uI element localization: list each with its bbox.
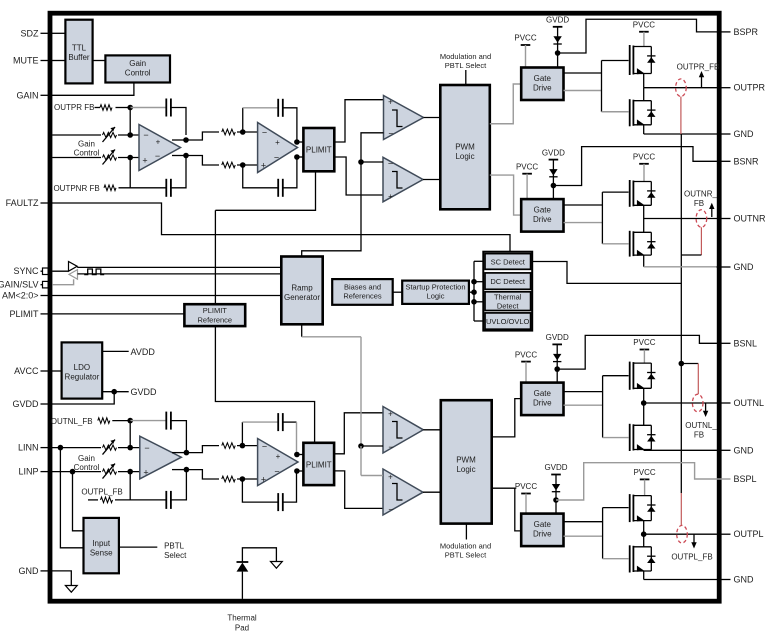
svg-text:BSPL: BSPL [734, 474, 757, 484]
svg-text:BSNL: BSNL [734, 338, 758, 348]
svg-text:GAIN/SLV: GAIN/SLV [0, 280, 39, 290]
wire fb cap top ch1 [130, 107, 166, 109]
svg-text:Startup Protection: Startup Protection [405, 282, 465, 291]
wire bootstrap 3 to BS pin [557, 335, 716, 369]
right feedback rail [680, 134, 682, 493]
feedback ellipse OUTPR [676, 79, 687, 97]
wire Gate Drive 4 outputs [564, 521, 603, 523]
wire PWM2 out top to Gate Drive 3 [492, 399, 522, 437]
svg-text:GND: GND [734, 262, 755, 272]
transistor Q4H (high side) [629, 494, 631, 522]
pin LINN wire + variable resistor [52, 447, 101, 449]
block U_SC SC Detect [485, 254, 531, 270]
svg-text:OUTPR_FB: OUTPR_FB [677, 63, 720, 72]
pin MUTE (left) [41, 60, 53, 62]
svg-text:Detect: Detect [497, 302, 520, 311]
svg-text:+: + [261, 160, 266, 170]
wire PWM1 out top to Gate Drive 1 (grey) [490, 84, 521, 124]
label/arrow OUTNR_FB [711, 206, 713, 217]
pin FAULTZ (left) [41, 202, 53, 204]
svg-text:GND: GND [19, 566, 40, 576]
wire LINN to Input Sense [60, 448, 83, 548]
wire Startup to detect bracket [469, 291, 474, 293]
svg-text:Thermal: Thermal [494, 293, 522, 302]
transistor Q3L (low side) [629, 424, 631, 451]
svg-text:Control: Control [74, 148, 100, 157]
red sense wire OUTNR [700, 227, 702, 255]
wire GND pin + ground symbol [52, 571, 71, 586]
block U_PREF PLIMIT Reference [184, 304, 245, 326]
wire PWM2 out bottom to Gate Drive 4 [492, 488, 522, 531]
red sense wire OUTPR [680, 97, 682, 135]
transistor Q2H (high side) [629, 180, 631, 207]
wire CMP4 out to PWM2 [423, 491, 441, 493]
svg-text:+: + [275, 138, 280, 147]
svg-text:Drive: Drive [533, 215, 552, 224]
svg-text:FB: FB [694, 431, 704, 440]
wire/label GVDD output [102, 391, 129, 393]
transistor Q1L (low side) [629, 99, 631, 126]
svg-text:PVCC: PVCC [514, 34, 536, 43]
wire PLIMIT1 bottom port down-left to PLIMIT Reference rail [215, 171, 315, 210]
svg-text:Logic: Logic [456, 465, 475, 474]
capacitor C_fb1a [165, 99, 167, 117]
wire OUT 2 to pin [644, 218, 717, 220]
svg-text:−: − [144, 443, 149, 453]
svg-text:Control: Control [74, 463, 100, 472]
svg-text:PVCC: PVCC [516, 162, 538, 171]
svg-text:−: − [274, 152, 279, 162]
wire/label PBTL Select [119, 546, 157, 548]
svg-text:−: − [143, 130, 148, 140]
wire ramp to comparators ch1 [302, 133, 384, 257]
wire CMP2 out to PWM logic [423, 179, 440, 181]
svg-text:Gate: Gate [534, 74, 552, 83]
svg-text:OUTPL: OUTPL [734, 529, 764, 539]
pin OUTPR (right, y=87.7) [717, 87, 731, 89]
svg-text:Gain: Gain [78, 139, 95, 148]
wire GAIN pin to Gain Control [52, 83, 134, 96]
svg-text:GVDD: GVDD [12, 399, 39, 409]
wire 4 high source to OUT [643, 521, 645, 535]
svg-text:GVDD: GVDD [546, 16, 569, 25]
svg-text:OUTPL_FB: OUTPL_FB [81, 488, 122, 497]
feedback cap ch2 2nd stage bottom [242, 479, 278, 502]
detect bracket rail [473, 261, 475, 321]
wire bootstrap 1 to BS pin [558, 19, 717, 53]
pin BSPR (right, y=31.9) [717, 31, 731, 33]
svg-text:GVDD: GVDD [542, 148, 565, 157]
feedback ellipse OUTNR [696, 210, 707, 228]
wire 1 low source to GND [643, 125, 645, 134]
svg-text:+: + [388, 97, 393, 106]
thermal pad diode + ground [241, 572, 243, 599]
op-amp U1A (right ch first stage) [139, 125, 181, 171]
op-amp U1A outputs [183, 137, 189, 143]
wire Gate Drive 2 outputs [564, 204, 603, 206]
wire AVCC to LDO [52, 370, 61, 372]
svg-text:PWM: PWM [455, 143, 475, 152]
block U_UV UVLO/OVLO [485, 313, 531, 329]
wire 2 low source to GND [643, 255, 645, 267]
svg-text:DC Detect: DC Detect [490, 277, 526, 286]
feedback cap ch1 2nd stage top [242, 108, 244, 132]
svg-text:TTL: TTL [72, 44, 87, 53]
svg-text:+: + [388, 472, 393, 481]
block U_TTL TTL Buffer [65, 20, 92, 84]
pin SYNC (left) [41, 270, 43, 272]
wire OUT 1 to pin [644, 87, 717, 89]
block U_GD4 Gate Drive [521, 514, 563, 547]
pin LINN (left) [41, 447, 53, 449]
wire GVDD dot to GVDD pin [52, 392, 114, 404]
svg-text:OUTNR_: OUTNR_ [684, 190, 717, 199]
svg-text:PBTL Select: PBTL Select [445, 61, 487, 70]
svg-text:GND: GND [734, 445, 755, 455]
comparator CMP1 (top) [384, 96, 424, 140]
wire 1 high source to OUT [643, 74, 645, 88]
wire 1 low drain to OUT [643, 88, 645, 101]
pin BSPL (right, y=479.0) [717, 478, 731, 480]
pin GND (right, y=267.0) [717, 266, 731, 268]
wire ramp to comparators ch2 (grey) [301, 324, 303, 337]
buffer SYNC input [52, 270, 68, 272]
wire 4 low source to GND [643, 571, 645, 580]
wire 3 high source to OUT [643, 388, 645, 403]
comparator CMP3 (top) [383, 407, 423, 454]
wire Gate Drive 1 outputs [564, 72, 602, 74]
svg-text:Drive: Drive [533, 399, 552, 408]
wire PLIMIT pin to PLIMIT Reference [52, 313, 184, 315]
svg-text:OUTNL_: OUTNL_ [685, 421, 717, 430]
comparator CMP2 (bottom) [383, 157, 423, 202]
body diode Q4L [650, 547, 652, 571]
svg-text:−: − [388, 129, 393, 139]
transistor Q1H (high side) [629, 45, 631, 75]
pin PLIMIT (left) [41, 313, 53, 315]
pin GND (left) [41, 570, 53, 572]
wire MUTE to TTL Buffer [52, 60, 65, 62]
comparator CMP4 (bottom) [383, 469, 423, 515]
wire/label AVDD [102, 350, 129, 352]
svg-text:Gain: Gain [78, 454, 95, 463]
wire OUT 3 to pin [644, 402, 717, 404]
wire PLIMIT1 out top to comparator [334, 100, 383, 142]
svg-text:OUTNL_FB: OUTNL_FB [51, 417, 93, 426]
pin OUTPL (right, y=534.2) [717, 533, 731, 535]
svg-text:Input: Input [92, 539, 111, 548]
transistor Q3H (high side) [629, 362, 631, 390]
pin LINP wire + variable resistor [52, 471, 101, 473]
block U_IS Input Sense [84, 518, 119, 573]
feedback cap ch2 2nd stage top [241, 422, 243, 446]
svg-text:GVDD: GVDD [131, 387, 158, 397]
capacitor C_fb2a [165, 412, 167, 430]
svg-text:SYNC: SYNC [13, 266, 39, 276]
block U_GD1 Gate Drive [521, 68, 563, 101]
svg-text:PWM: PWM [456, 456, 476, 465]
block U_GC Gain Control [105, 55, 170, 82]
svg-text:−: − [388, 442, 393, 452]
svg-text:Gain: Gain [129, 59, 146, 68]
pin GAIN (left) [41, 94, 53, 96]
svg-text:−: − [388, 504, 393, 514]
svg-text:Gate: Gate [534, 520, 552, 529]
svg-text:−: − [388, 158, 393, 168]
wire GAIN/SLV line to Ramp Generator [78, 273, 282, 275]
svg-text:Sense: Sense [90, 549, 113, 558]
body diode Q1L [650, 101, 652, 125]
svg-text:+: + [388, 192, 393, 201]
svg-text:FB: FB [694, 199, 704, 208]
label/arrow OUTPL_FB [693, 534, 695, 545]
feedback cap ch1 2nd stage bottom [243, 165, 278, 188]
label/arrow OUTPR_FB [701, 75, 703, 88]
svg-text:PLIMIT: PLIMIT [306, 460, 332, 469]
block U_BIAS Biases and References [332, 279, 393, 305]
svg-text:GVDD: GVDD [546, 333, 569, 342]
block stack detect outer [483, 252, 532, 331]
label Modulation and PBTL Select (bottom) [465, 524, 467, 540]
op-amp U2B (left ch second stage) [258, 439, 298, 486]
svg-text:Regulator: Regulator [65, 372, 100, 381]
svg-text:+: + [388, 409, 393, 418]
svg-text:−: − [262, 127, 267, 137]
pin GND (right, y=450.3) [717, 449, 731, 451]
svg-text:Control: Control [125, 69, 151, 78]
block U_PL1 PLIMIT (right channel) [297, 141, 304, 143]
svg-text:−: − [262, 441, 267, 451]
svg-text:BSNR: BSNR [734, 156, 760, 166]
svg-text:AM<2:0>: AM<2:0> [2, 291, 39, 301]
svg-text:PVCC: PVCC [633, 20, 655, 29]
svg-text:OUTPNR FB: OUTPNR FB [53, 184, 99, 193]
block U_RAMP Ramp Generator [281, 257, 322, 325]
feedback ellipse OUTNL [692, 394, 703, 412]
op-amp U1B (right ch second stage) [258, 123, 298, 173]
diode D_1 GVDD [553, 36, 561, 43]
pin GVDD (left) [41, 403, 53, 405]
diode D_4 GVDD [552, 484, 560, 491]
block U_LDO LDO Regulator [62, 342, 103, 398]
pin SDZ (left) [41, 32, 53, 34]
transistor Q4L (low side) [629, 545, 631, 572]
pin BSNL (right, y=343.3) [717, 342, 731, 344]
svg-text:PLIMIT: PLIMIT [9, 309, 39, 319]
pin AM&lt;2:0&gt; (left) [41, 295, 53, 297]
svg-text:+: + [142, 156, 147, 166]
wire SYNC line to Ramp Generator [77, 266, 281, 268]
capacitor C_fb1b [165, 179, 167, 197]
label/arrow OUTNL_FB [705, 403, 707, 414]
wire FAULTZ to SC Detect top [52, 203, 510, 252]
wire SC Detect output to right rail [532, 262, 681, 284]
wire Biases to Startup [393, 291, 403, 293]
svg-text:PVCC: PVCC [633, 153, 655, 162]
body diode Q3H [650, 363, 652, 388]
svg-text:−: − [274, 466, 279, 476]
wire 3 low drain to OUT [643, 403, 645, 425]
svg-text:OUTPR FB: OUTPR FB [54, 103, 94, 112]
wire LINP to Input Sense [73, 472, 84, 531]
svg-text:Logic: Logic [455, 152, 474, 161]
svg-text:Gate: Gate [534, 389, 552, 398]
block U_PWM2 PWM Logic 2 [441, 400, 492, 523]
svg-text:+: + [143, 468, 148, 478]
svg-text:Buffer: Buffer [68, 53, 90, 62]
svg-text:GAIN: GAIN [16, 90, 38, 100]
pin BSNR (right, y=161.3) [717, 160, 731, 162]
body diode Q2L [650, 232, 652, 255]
pin LINP (left) [41, 471, 53, 473]
svg-text:Reference: Reference [197, 316, 232, 325]
svg-text:+: + [261, 474, 266, 484]
pulse waveform symbol [84, 269, 104, 275]
wire PLIMIT1 out bottom to comparator [334, 157, 383, 195]
feedback ellipse OUTPL [677, 525, 688, 543]
wire 2 high source to OUT [643, 205, 645, 218]
capacitor C_fb2b [165, 491, 167, 509]
svg-text:Modulation and: Modulation and [440, 542, 491, 551]
wire AM<2:0> to Ramp Generator [52, 295, 281, 297]
svg-text:Logic: Logic [427, 291, 445, 300]
body diode Q4H [650, 496, 652, 521]
svg-text:FAULTZ: FAULTZ [6, 198, 39, 208]
svg-text:OUTPR: OUTPR [734, 83, 765, 93]
pin RINN wire + variable resistor [52, 157, 101, 159]
red sense wire OUTPL [680, 493, 682, 525]
svg-text:SDZ: SDZ [21, 28, 40, 38]
svg-text:PVCC: PVCC [515, 350, 537, 359]
op-amp U2A (left ch first stage) [140, 436, 182, 479]
svg-text:References: References [343, 291, 382, 300]
svg-text:Ramp: Ramp [291, 283, 313, 292]
wire PLIMIT2 out bottom to comparator [334, 471, 383, 509]
wire PWM1 out bottom to Gate Drive 2 (grey) [490, 175, 521, 215]
wire CMP1 out to PWM logic [424, 117, 441, 119]
svg-text:−: − [155, 151, 160, 161]
wire GAIN/SLV grey [52, 279, 73, 285]
wire CMP3 out to PWM2 [423, 429, 441, 431]
wire interstage ch1 top + resistor [186, 132, 219, 140]
diode D_3 GVDD [553, 354, 561, 361]
svg-text:Gate: Gate [534, 206, 552, 215]
svg-text:LINN: LINN [18, 443, 39, 453]
pin GND (right, y=579.5) [717, 579, 731, 581]
svg-text:Generator: Generator [284, 293, 320, 302]
svg-text:OUTPL_FB: OUTPL_FB [671, 553, 712, 562]
svg-text:Pad: Pad [235, 624, 249, 633]
wire Gate Drive 3 outputs [564, 391, 603, 393]
svg-text:OUTNR: OUTNR [734, 214, 765, 224]
svg-text:PBTL Select: PBTL Select [445, 551, 487, 560]
pin GND (right, y=134.0) [717, 133, 731, 135]
svg-text:Drive: Drive [533, 84, 552, 93]
svg-text:OUTNL: OUTNL [734, 398, 765, 408]
svg-text:LDO: LDO [74, 363, 90, 372]
svg-text:BSPR: BSPR [734, 27, 759, 37]
svg-text:Thermal: Thermal [227, 614, 257, 623]
diode D_2 GVDD [549, 169, 557, 176]
wire interstage ch2 bottom + resistor [186, 470, 219, 479]
svg-text:AVCC: AVCC [14, 366, 39, 376]
block U_TH Thermal Detect [485, 292, 531, 311]
vertical rail through PLIMIT Reference [214, 210, 216, 304]
svg-text:PLIMIT: PLIMIT [203, 306, 228, 315]
pin OUTNR (right, y=218.5) [717, 218, 731, 220]
svg-text:Modulation and: Modulation and [440, 52, 491, 61]
svg-text:+: + [156, 137, 161, 146]
svg-text:UVLO/OVLO: UVLO/OVLO [486, 317, 530, 326]
svg-text:PVCC: PVCC [633, 468, 655, 477]
svg-text:Drive: Drive [533, 530, 552, 539]
pin GAIN/SLV (left) [41, 284, 43, 286]
body diode Q3L [650, 425, 652, 449]
svg-text:MUTE: MUTE [13, 56, 39, 66]
block U_GD3 Gate Drive [521, 383, 563, 416]
wire bootstrap 2 to BS pin [553, 147, 716, 186]
wire interstage ch2 top + resistor [186, 446, 219, 453]
wire 2 low drain to OUT [643, 219, 645, 233]
wire interstage ch1 bottom + resistor [186, 156, 219, 166]
wire OUT 4 to pin [644, 533, 717, 535]
wire bootstrap 4 to BS pin [556, 463, 717, 500]
svg-text:Select: Select [164, 551, 187, 560]
body diode Q2H [650, 182, 652, 206]
svg-text:PLIMIT: PLIMIT [306, 146, 332, 155]
svg-text:GND: GND [734, 575, 755, 585]
red sense wire OUTNL [681, 363, 698, 365]
svg-text:PBTL: PBTL [164, 541, 185, 550]
wire SDZ to TTL Buffer [52, 32, 65, 34]
svg-text:GND: GND [734, 129, 755, 139]
svg-text:LINP: LINP [18, 467, 38, 477]
block U_PL2 PLIMIT (left channel) [297, 454, 304, 456]
block U_GD2 Gate Drive [521, 199, 563, 232]
svg-text:SC Detect: SC Detect [491, 258, 526, 267]
svg-text:GVDD: GVDD [544, 463, 567, 472]
wire PLIMIT2 out top to comparator [334, 413, 383, 454]
pin RINP wire + variable resistor [52, 134, 101, 136]
svg-text:AVDD: AVDD [131, 347, 156, 357]
wire 4 low drain to OUT [643, 534, 645, 547]
svg-text:PVCC: PVCC [515, 482, 537, 491]
block U_SPL Startup Protection Logic [402, 281, 469, 304]
block U_PWM1 PWM Logic [440, 85, 490, 209]
svg-text:+: + [276, 452, 281, 461]
pin OUTNL (right, y=403.0) [717, 402, 731, 404]
wire 3 low source to GND [643, 449, 645, 452]
wire TTL Buffer to Gain Control [93, 60, 106, 62]
body diode Q1H [650, 47, 652, 74]
svg-text:Biases and: Biases and [344, 282, 381, 291]
pin AVCC (left) [41, 370, 53, 372]
transistor Q2L (low side) [629, 231, 631, 257]
svg-text:PVCC: PVCC [633, 338, 655, 347]
block U_DC DC Detect [485, 273, 531, 289]
